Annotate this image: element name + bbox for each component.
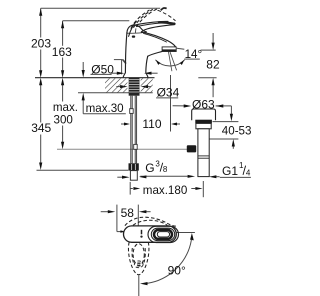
svg-text:163: 163 xyxy=(52,45,72,59)
svg-text:90°: 90° xyxy=(168,264,186,278)
svg-text:8: 8 xyxy=(163,165,168,174)
svg-text:4: 4 xyxy=(246,168,251,177)
svg-text:max.180: max.180 xyxy=(143,184,187,197)
svg-text:Ø34: Ø34 xyxy=(157,86,180,100)
svg-text:Ø50: Ø50 xyxy=(91,62,114,76)
svg-text:G1: G1 xyxy=(222,164,238,178)
svg-text:Ø63: Ø63 xyxy=(192,97,215,111)
svg-text:G: G xyxy=(145,161,154,175)
svg-text:345: 345 xyxy=(31,121,51,135)
svg-text:3: 3 xyxy=(155,160,160,169)
svg-text:58: 58 xyxy=(121,206,135,220)
svg-text:max.: max. xyxy=(53,101,78,114)
svg-text:110: 110 xyxy=(142,117,161,131)
svg-text:82: 82 xyxy=(206,58,220,72)
svg-text:203: 203 xyxy=(31,37,51,51)
svg-text:40-53: 40-53 xyxy=(222,125,252,138)
svg-text:1: 1 xyxy=(239,161,244,170)
svg-text:max.30: max.30 xyxy=(86,102,124,115)
svg-text:300: 300 xyxy=(54,114,73,127)
svg-text:14°: 14° xyxy=(185,48,203,61)
